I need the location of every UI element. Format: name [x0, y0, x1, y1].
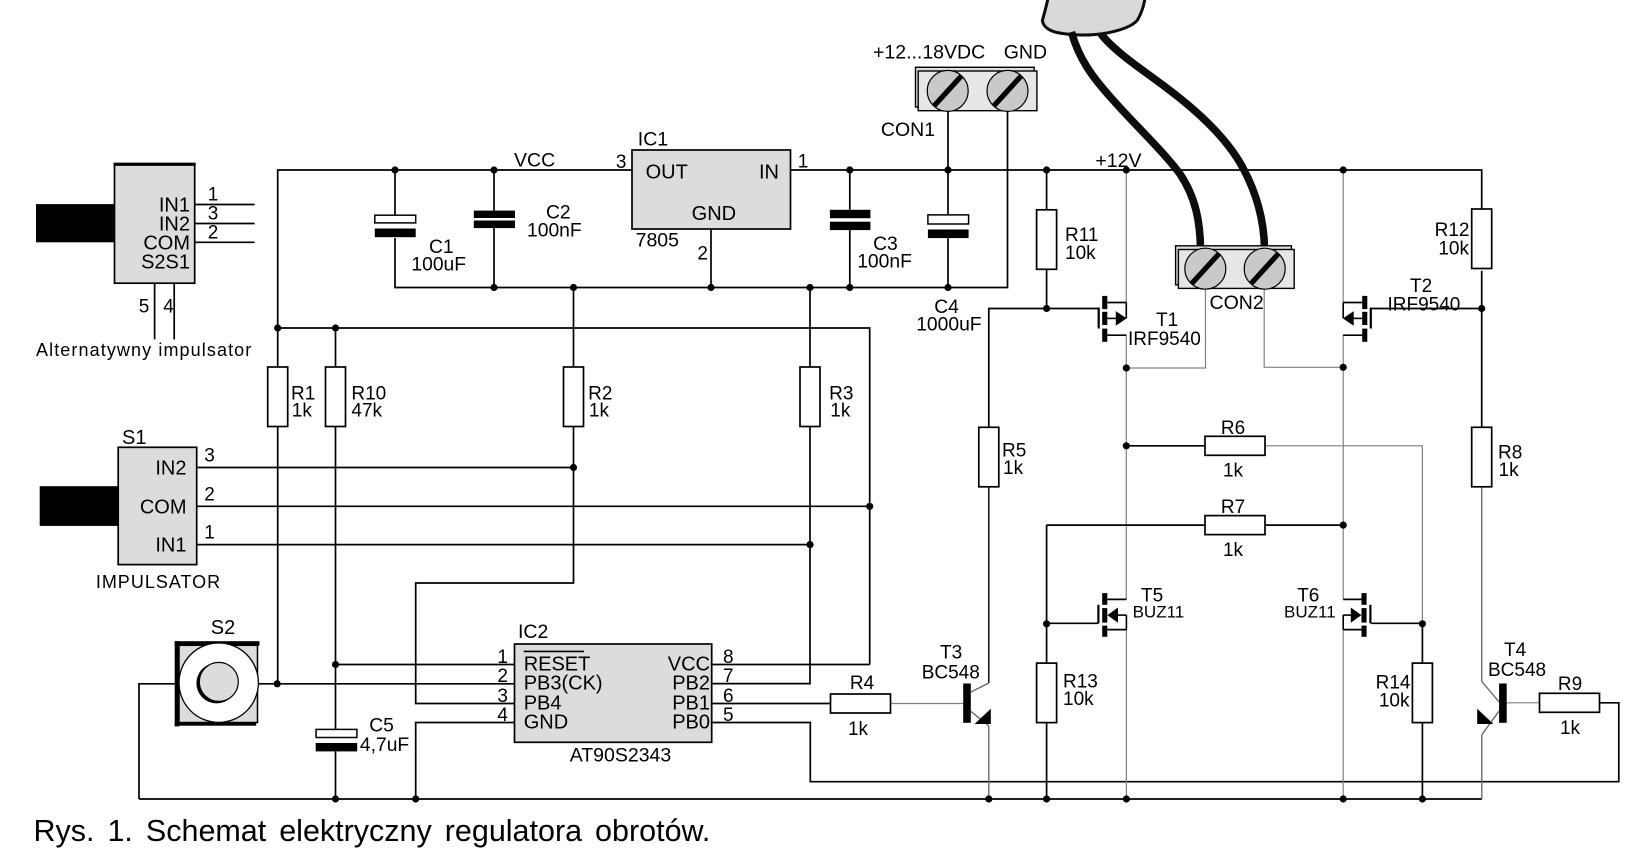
resistor R13 body — [1037, 663, 1057, 723]
svg-text:10k: 10k — [1438, 239, 1469, 260]
connector stub (black) of S2S1 — [36, 204, 115, 242]
transistor T6 gate bar — [1369, 605, 1371, 624]
transistor T6 source lead — [1343, 629, 1361, 631]
transistor T3 collector line — [971, 683, 989, 692]
svg-text:R7: R7 — [1221, 497, 1245, 518]
terminal CON2 back face — [1176, 246, 1292, 285]
wire T5 source to bottom rail — [1125, 630, 1127, 799]
svg-text:PB0: PB0 — [672, 712, 710, 734]
svg-text:CON2: CON2 — [1210, 292, 1264, 314]
wire ground rail (y=287.5) — [395, 111, 1008, 288]
transistor T2 body arrow — [1343, 311, 1354, 326]
transistor T2 top lead — [1343, 302, 1362, 304]
wire IC2 PB0 pin5 route to R9 — [712, 703, 1619, 782]
svg-text:1: 1 — [798, 152, 809, 173]
junction dots S1 rows — [570, 464, 577, 471]
connector stub (black) of S1 — [40, 486, 121, 526]
svg-text:1k: 1k — [1223, 461, 1244, 482]
svg-text:BUZ11: BUZ11 — [1284, 603, 1336, 622]
svg-text:AT90S2343: AT90S2343 — [570, 745, 672, 767]
wire C2 leads — [493, 170, 495, 211]
transistor T6 drain lead — [1343, 598, 1361, 600]
wire +12V raw rail (IC1 IN to R12) — [791, 170, 1482, 209]
wire C1 top lead — [394, 170, 396, 215]
wire S1 pin3 IN2 row — [197, 467, 574, 469]
svg-text:1k: 1k — [589, 401, 610, 422]
svg-text:C5: C5 — [369, 716, 394, 737]
transistor T2 gate bar — [1370, 308, 1372, 329]
capacitor C3 top plate — [830, 210, 871, 218]
svg-text:100nF: 100nF — [527, 221, 582, 242]
S2S1 pin 5 stub — [154, 283, 156, 339]
transistor T1 top lead — [1107, 302, 1126, 304]
svg-text:S2: S2 — [211, 617, 235, 639]
resistor R4 body — [831, 694, 891, 713]
svg-text:1: 1 — [497, 647, 508, 668]
wire R9 left lead to T4 base — [1507, 702, 1540, 704]
wire output node A down to T5 drain — [1125, 368, 1127, 599]
motor cable 2 (to CON2 right) — [1101, 34, 1265, 248]
wire IC1 GND pin 2 lead — [710, 229, 712, 288]
svg-text:4: 4 — [163, 297, 174, 318]
svg-text:2: 2 — [204, 484, 215, 505]
wire R5 top lead to T1 gate junction — [989, 309, 1047, 428]
pushbutton S2 shadow bottom — [175, 722, 257, 725]
resistor R8 body — [1472, 427, 1492, 487]
wire R11 bottom lead — [1046, 269, 1048, 308]
wire R11 top lead — [1046, 170, 1048, 210]
resistor R1 body — [268, 367, 288, 427]
transistor T5 body-source tie — [1125, 615, 1127, 630]
resistor R11 body — [1037, 210, 1057, 269]
svg-text:+12...18VDC: +12...18VDC — [873, 42, 985, 64]
svg-text:5: 5 — [139, 297, 150, 318]
capacitor C5 top plate — [316, 729, 357, 737]
svg-text:6: 6 — [723, 686, 734, 707]
svg-text:5: 5 — [723, 705, 734, 726]
transistor T5 gate bar — [1097, 605, 1099, 624]
svg-text:100uF: 100uF — [411, 255, 466, 276]
wire R7 right lead — [1265, 524, 1343, 526]
svg-text:BUZ11: BUZ11 — [1133, 603, 1185, 622]
svg-text:IC2: IC2 — [518, 621, 548, 643]
svg-text:1k: 1k — [848, 719, 869, 740]
wire VCC rail (top, y=170 left of IC1) — [278, 170, 632, 328]
wire R10 chain: VCC sub-rail to RESET row and C5 — [335, 328, 337, 367]
svg-text:100nF: 100nF — [857, 252, 912, 273]
wire R7 left lead — [1047, 524, 1205, 526]
svg-text:GND: GND — [1004, 42, 1047, 64]
capacitor C4 bottom plate — [928, 230, 969, 239]
transistor T1 channel segments — [1102, 296, 1107, 309]
transistor T5 channel segments — [1102, 593, 1107, 605]
svg-text:PB3(CK): PB3(CK) — [524, 673, 603, 695]
wire node B down to T6 drain — [1342, 367, 1344, 599]
wire R2 bottom chain to IC2 PB4 — [416, 427, 574, 704]
svg-text:GND: GND — [524, 712, 568, 734]
transistor T4 base bar — [1499, 684, 1507, 723]
wire T2 gate lead — [1371, 308, 1482, 310]
wire R2 top lead from ground rail — [573, 288, 575, 368]
resistor R5 body — [979, 427, 999, 487]
pushbutton S2 shadow top — [175, 641, 260, 645]
wire R14 leads — [1421, 624, 1423, 663]
wire bottom ground rail (y=799) — [139, 798, 1482, 800]
transistor T1 source-body tie — [1125, 303, 1127, 319]
CON1 screw right — [987, 70, 1028, 111]
transistor T3 emitter line — [971, 711, 989, 726]
wire IC2 VCC pin8 row — [712, 664, 870, 666]
svg-text:3: 3 — [616, 152, 627, 173]
resistor R7 body — [1205, 516, 1265, 535]
S2S1 pin 4 stub — [173, 283, 175, 339]
wire S2 left lead to bottom rail — [139, 684, 175, 799]
wire R13 bottom lead — [1046, 723, 1048, 799]
terminal CON2 front face — [1178, 250, 1294, 289]
wire T1 source to +12V rail — [1125, 170, 1127, 302]
transistor T4 collector line — [1482, 682, 1499, 703]
transistor T2 source-body tie — [1342, 303, 1344, 319]
svg-text:T1: T1 — [1156, 310, 1178, 331]
svg-text:3: 3 — [204, 446, 215, 467]
svg-text:10k: 10k — [1063, 689, 1094, 710]
capacitor C2 top plate — [474, 211, 515, 218]
wire T2 source to +12V rail — [1342, 170, 1344, 302]
svg-text:T3: T3 — [940, 643, 962, 664]
svg-text:4: 4 — [497, 705, 508, 726]
capacitor C4 top plate — [928, 215, 969, 224]
motor body blob — [1042, 0, 1145, 35]
wire T6 source to bottom rail — [1342, 630, 1344, 799]
CON2 screw left — [1185, 248, 1226, 289]
svg-text:R9: R9 — [1558, 674, 1582, 695]
microcontroller IC2 box — [515, 644, 712, 742]
svg-text:8: 8 — [723, 647, 734, 668]
motor cable 1 (to CON2 left) — [1072, 32, 1201, 248]
svg-text:IC1: IC1 — [638, 129, 668, 151]
svg-text:7805: 7805 — [636, 230, 680, 252]
wire S1 pin1 IN1 row — [197, 544, 810, 546]
pushbutton S2 cap — [179, 645, 258, 722]
wire T1 drain to output node A — [1125, 335, 1127, 368]
wire R3 bottom chain to IC2 PB2 — [712, 427, 810, 684]
wire T6 gate lead — [1371, 622, 1423, 624]
wire R12 bottom lead to T2 gate junction — [1481, 271, 1483, 309]
resistor R2 body — [564, 367, 584, 427]
svg-text:+12V: +12V — [1095, 150, 1141, 172]
svg-text:1k: 1k — [830, 401, 851, 422]
transistor T1 gate bar — [1098, 308, 1100, 329]
transistor T1 bottom lead — [1107, 334, 1126, 336]
resistor R14 body — [1412, 663, 1432, 723]
svg-text:S2S1: S2S1 — [141, 251, 190, 273]
svg-text:2: 2 — [208, 222, 219, 243]
terminal CON1 back face — [916, 67, 1035, 107]
transistor T3 emitter arrow — [975, 709, 991, 724]
transistor T4 emitter line — [1482, 711, 1499, 735]
svg-text:IRF9540: IRF9540 — [1128, 329, 1201, 350]
svg-text:PB2: PB2 — [672, 673, 710, 695]
svg-text:1k: 1k — [1223, 540, 1244, 561]
capacitor C3 bottom plate — [830, 222, 871, 230]
wire T5 gate lead — [1047, 622, 1099, 624]
junction dots IC2 left — [332, 661, 339, 668]
switch S2S1 box — [115, 164, 195, 284]
wire node A to CON2 left pin — [1126, 288, 1205, 368]
wire T1 gate junction to gate bar — [1047, 308, 1099, 310]
resistor R9 body — [1540, 693, 1600, 712]
resistor R3 body — [800, 367, 820, 427]
wire VCC sub-rail (y=328 to IC2 VCC) — [278, 328, 870, 665]
svg-text:47k: 47k — [351, 401, 382, 422]
transistor T6 channel segments — [1362, 593, 1367, 605]
pushbutton S2 inner button — [199, 662, 238, 701]
wire R6 right lead to T6 gate junction — [1265, 446, 1422, 624]
wire R8 bottom to T4 collector — [1481, 487, 1483, 682]
wire S2 right contact to IC2 PB3 — [258, 683, 515, 685]
svg-text:7: 7 — [723, 666, 734, 687]
capacitor C1 bottom plate — [375, 229, 416, 238]
capacitor C5 bottom plate — [316, 743, 358, 751]
junction dots H-bridge — [1043, 305, 1050, 312]
svg-text:VCC: VCC — [514, 150, 555, 172]
wire C4 leads / CON1 +12V lead — [947, 111, 949, 215]
svg-text:1: 1 — [204, 523, 215, 544]
wire T2 drain to output node B — [1342, 335, 1344, 367]
transistor T2 channel segments — [1362, 296, 1367, 309]
svg-text:1k: 1k — [1560, 718, 1581, 739]
wire T3 collector to R5 bottom — [988, 487, 990, 683]
wire node B to CON2 right pin — [1264, 288, 1343, 367]
wire S1 pin2 COM row — [197, 505, 870, 507]
regulator IC1 box — [632, 150, 791, 229]
svg-text:COM: COM — [140, 496, 187, 518]
wire R8 top lead — [1481, 309, 1483, 428]
S2S1 pin wires 1 3 2 — [195, 204, 255, 206]
svg-text:OUT: OUT — [646, 162, 688, 184]
wire R3 top lead from ground rail — [809, 288, 811, 368]
wire T4 emitter to bottom rail — [1481, 735, 1483, 799]
terminal CON1 front face — [918, 71, 1037, 111]
svg-text:S1: S1 — [122, 427, 146, 449]
junction dots bottom rail — [332, 795, 339, 802]
transistor T1 body arrow — [1116, 311, 1127, 326]
svg-text:IMPULSATOR: IMPULSATOR — [96, 572, 221, 592]
transistor T5 drain lead — [1107, 598, 1126, 600]
capacitor C2 bottom plate — [474, 221, 515, 229]
switch S1 box — [118, 447, 197, 564]
svg-text:2: 2 — [497, 666, 508, 687]
junction dots VCC sub-rail — [274, 324, 281, 331]
transistor T4 emitter arrow — [1477, 709, 1493, 724]
wire R6 left lead — [1126, 445, 1205, 447]
svg-text:Alternatywny impulsator: Alternatywny impulsator — [36, 340, 252, 360]
IC2 RESET overline — [524, 650, 584, 652]
transistor T6 body-source tie — [1342, 615, 1344, 630]
wire C5 bottom lead — [335, 751, 337, 799]
svg-text:1k: 1k — [292, 401, 313, 422]
svg-text:R6: R6 — [1221, 418, 1245, 439]
svg-text:10k: 10k — [1065, 243, 1096, 264]
svg-text:1: 1 — [208, 185, 219, 206]
svg-text:1k: 1k — [1499, 460, 1520, 481]
transistor T6 body arrow — [1351, 608, 1362, 623]
svg-text:CON1: CON1 — [881, 119, 935, 141]
svg-text:IRF9540: IRF9540 — [1388, 295, 1461, 316]
svg-text:1k: 1k — [1003, 458, 1024, 479]
svg-text:2: 2 — [697, 244, 708, 265]
svg-text:BC548: BC548 — [922, 663, 980, 684]
svg-text:1000uF: 1000uF — [916, 315, 981, 336]
svg-text:BC548: BC548 — [1488, 660, 1546, 681]
switch S2S1 box top edge — [114, 163, 196, 166]
junction dots ground rail — [490, 284, 497, 291]
CON2 screw right — [1244, 248, 1285, 289]
svg-text:10k: 10k — [1379, 691, 1410, 712]
svg-text:T4: T4 — [1504, 640, 1527, 661]
wire IC2 RESET pin1 row — [336, 664, 515, 666]
svg-text:4,7uF: 4,7uF — [360, 735, 409, 756]
svg-text:R4: R4 — [850, 673, 875, 694]
wire C3 leads — [849, 170, 851, 210]
wire IC2 PB1 pin6 row to R4 — [712, 703, 831, 705]
svg-text:3: 3 — [497, 686, 508, 707]
transistor T3 base bar — [963, 684, 971, 723]
CON1 screw left — [927, 70, 968, 111]
svg-text:IN1: IN1 — [155, 535, 186, 557]
pushbutton S2 inner button shadow — [196, 663, 236, 703]
resistor R10 body — [326, 367, 346, 427]
junction dots top rails — [391, 166, 398, 173]
transistor T2 bottom lead — [1343, 334, 1362, 336]
resistor R12 body — [1472, 209, 1492, 269]
wire R1 chain: VCC sub-rail to S2 row — [277, 328, 279, 367]
pushbutton S2 shadow left — [175, 641, 180, 726]
svg-text:GND: GND — [692, 203, 736, 225]
wire T5 gate junction chain (R7/R13) — [1046, 525, 1048, 663]
wire T3 emitter to ground rail — [988, 726, 990, 799]
pushbutton S2 outer ring — [179, 643, 258, 722]
transistor T5 source lead — [1107, 629, 1126, 631]
transistor T5 body arrow — [1107, 608, 1118, 623]
svg-text:IN: IN — [759, 162, 779, 184]
svg-text:IN2: IN2 — [155, 458, 186, 480]
capacitor C1 top plate — [375, 215, 416, 223]
svg-text:Rys. 1. Schemat elektryczny re: Rys. 1. Schemat elektryczny regulatora o… — [34, 814, 711, 848]
resistor R6 body — [1205, 436, 1265, 455]
wire R4 right lead to T3 base — [890, 703, 963, 705]
wire IC2 GND pin4 row — [416, 723, 515, 800]
